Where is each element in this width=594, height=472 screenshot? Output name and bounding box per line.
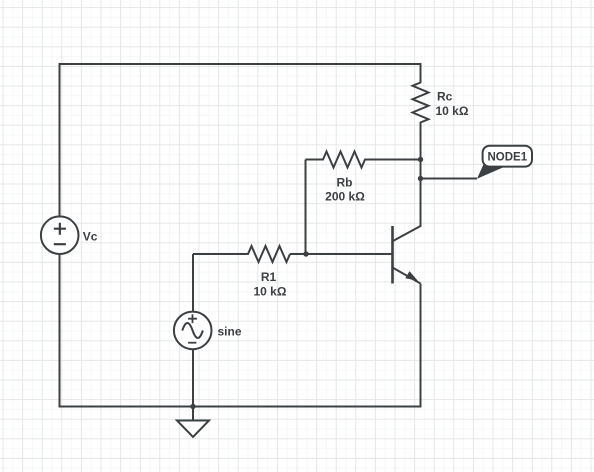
wire base (R1 to transistor) [290,253,393,255]
svg-text:Vc: Vc [83,230,98,244]
wire sine source upper [192,254,194,312]
wire left rail upper [59,63,61,216]
svg-text:Rb: Rb [337,176,353,190]
transistor Q1 emitter [393,268,421,284]
wire Rb left leg down [305,160,307,255]
voltage source Vc [41,216,79,254]
sine voltage source [174,312,212,350]
wire sine source lower [192,349,194,406]
wire bottom rail [59,406,421,408]
ground [177,407,209,438]
junction dot at ground [190,404,195,409]
svg-text:200 kΩ: 200 kΩ [325,190,365,204]
svg-text:10 kΩ: 10 kΩ [254,284,287,298]
transistor Q1 collector [393,179,421,242]
svg-text:NODE1: NODE1 [487,152,527,164]
resistor Rc [413,63,429,160]
svg-text:R1: R1 [261,270,277,284]
junction dot at NODE1/collector [418,176,423,181]
node NODE1 flag [477,146,532,179]
junction dot at R1/Rb leg [303,251,308,256]
svg-text:Rc: Rc [437,90,453,104]
wire left rail lower [59,254,61,407]
wire Rc to collector node [420,160,422,179]
junction dot at Rb/Rc [418,157,423,162]
svg-text:10 kΩ: 10 kΩ [436,104,469,118]
svg-text:sine: sine [218,325,242,339]
wire top rail [60,63,421,65]
wire node1 stub [421,178,478,180]
wire emitter down [420,284,422,408]
resistor Rb [306,152,421,168]
resistor R1 [193,246,290,262]
transistor Q1 base bar [391,226,394,284]
